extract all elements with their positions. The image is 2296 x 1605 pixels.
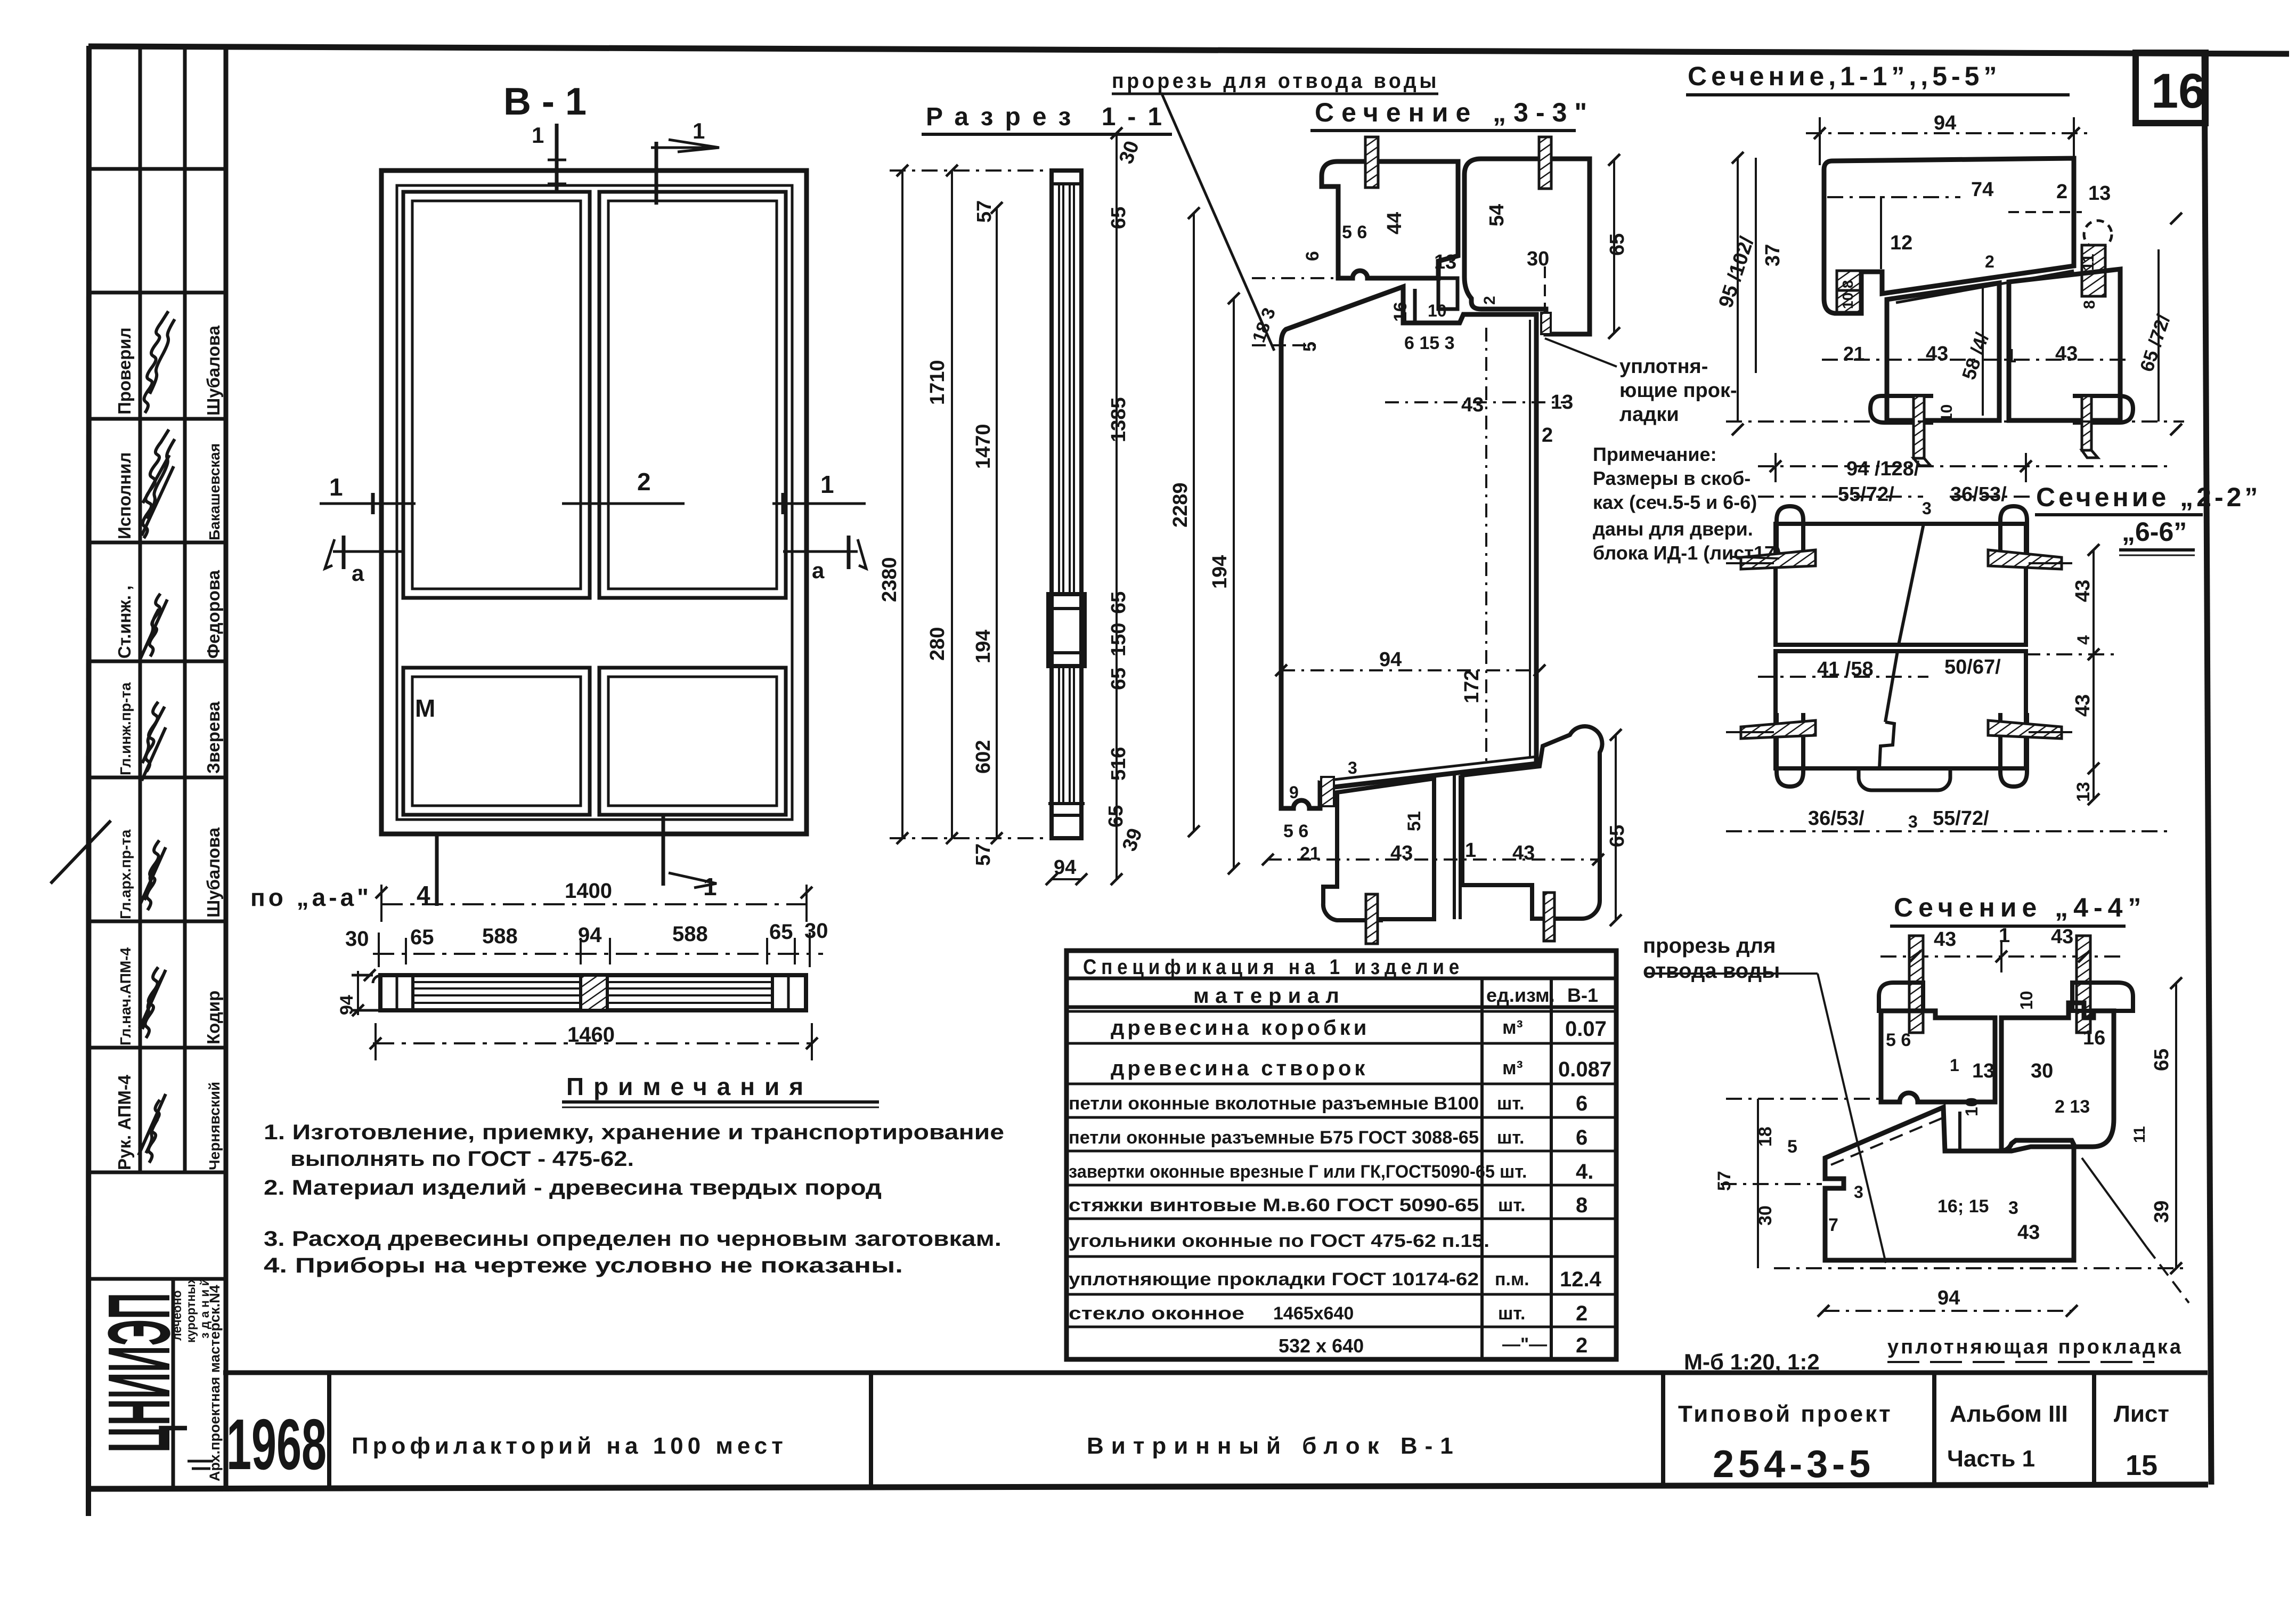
svg-text:65: 65 bbox=[1105, 805, 1127, 828]
svg-text:5: 5 bbox=[1300, 342, 1320, 352]
svg-text:65: 65 bbox=[1108, 207, 1130, 229]
svg-text:Бакашевская: Бакашевская bbox=[206, 443, 223, 540]
svg-text:уплотня-: уплотня- bbox=[1619, 355, 1708, 378]
svg-text:150: 150 bbox=[1108, 623, 1130, 656]
svg-text:Примечание:: Примечание: bbox=[1593, 443, 1717, 465]
svg-text:4: 4 bbox=[2074, 635, 2093, 645]
svg-text:43: 43 bbox=[1512, 842, 1535, 864]
svg-text:1: 1 bbox=[2006, 345, 2016, 367]
svg-text:43: 43 bbox=[2072, 580, 2094, 602]
svg-text:65 /72/: 65 /72/ bbox=[2136, 312, 2175, 374]
svg-text:Гл.нач.АПМ-4: Гл.нач.АПМ-4 bbox=[117, 947, 134, 1045]
svg-text:8: 8 bbox=[1576, 1194, 1587, 1217]
svg-text:петли оконные разъемные Б75 ГО: петли оконные разъемные Б75 ГОСТ 3088-65 bbox=[1069, 1128, 1479, 1148]
svg-text:43: 43 bbox=[1934, 928, 1956, 951]
svg-text:2: 2 bbox=[1985, 252, 1994, 271]
svg-text:2: 2 bbox=[1481, 296, 1499, 305]
svg-text:Шубалова: Шубалова bbox=[203, 827, 223, 918]
svg-text:10: 10 bbox=[2017, 991, 2036, 1010]
svg-text:54: 54 bbox=[1486, 204, 1508, 226]
svg-text:Размеры в скоб-: Размеры в скоб- bbox=[1593, 467, 1751, 489]
svg-text:602: 602 bbox=[972, 740, 995, 774]
svg-text:13: 13 bbox=[2088, 182, 2111, 205]
svg-text:55/72/: 55/72/ bbox=[1838, 483, 1894, 506]
svg-text:18: 18 bbox=[1755, 1126, 1776, 1147]
svg-text:отвода воды: отвода воды bbox=[1643, 959, 1780, 983]
svg-text:петли оконные вколотные разъем: петли оконные вколотные разъемные В100 bbox=[1069, 1093, 1479, 1114]
svg-text:шт.: шт. bbox=[1500, 1162, 1527, 1182]
svg-text:50/67/: 50/67/ bbox=[1944, 656, 2001, 678]
svg-text:Гл.арх.пр-та: Гл.арх.пр-та bbox=[117, 829, 134, 919]
svg-text:30: 30 bbox=[1527, 248, 1549, 270]
svg-text:1968: 1968 bbox=[226, 1404, 327, 1485]
svg-text:завертки оконные врезные Г или: завертки оконные врезные Г или ГК,ГОСТ50… bbox=[1069, 1162, 1495, 1182]
svg-text:1470: 1470 bbox=[972, 424, 995, 469]
svg-text:13: 13 bbox=[2073, 782, 2094, 802]
svg-text:материал: материал bbox=[1193, 984, 1346, 1008]
svg-text:10.8: 10.8 bbox=[1839, 280, 1856, 310]
svg-text:3: 3 bbox=[2008, 1198, 2018, 1218]
svg-text:ед.изм.: ед.изм. bbox=[1486, 984, 1555, 1006]
svg-text:194: 194 bbox=[1209, 555, 1231, 589]
svg-text:В - 1: В - 1 bbox=[503, 80, 587, 123]
svg-text:30: 30 bbox=[1755, 1205, 1776, 1226]
svg-text:43: 43 bbox=[1461, 394, 1484, 416]
svg-text:2: 2 bbox=[637, 468, 651, 496]
svg-text:30: 30 bbox=[2031, 1060, 2053, 1082]
svg-text:280: 280 bbox=[926, 627, 949, 661]
svg-text:Альбом III: Альбом III bbox=[1950, 1401, 2068, 1427]
svg-text:516: 516 bbox=[1108, 747, 1130, 781]
svg-text:ющие прок-: ющие прок- bbox=[1619, 379, 1737, 402]
svg-text:Зверева: Зверева bbox=[203, 701, 223, 774]
svg-text:21: 21 bbox=[1300, 844, 1320, 864]
svg-text:Кодир: Кодир bbox=[203, 991, 223, 1044]
svg-text:65: 65 bbox=[1606, 825, 1629, 847]
svg-text:стяжки винтовые М.в.60 ГОСТ 50: стяжки винтовые М.в.60 ГОСТ 5090-65 bbox=[1069, 1195, 1479, 1215]
svg-text:Профилакторий на 100 мест: Профилакторий на 100 мест bbox=[352, 1433, 787, 1459]
svg-text:Лист: Лист bbox=[2114, 1401, 2169, 1427]
svg-text:Примечания: Примечания bbox=[566, 1073, 813, 1100]
svg-text:36/53/: 36/53/ bbox=[1950, 483, 2007, 506]
svg-text:1: 1 bbox=[693, 118, 705, 143]
svg-text:по „а-а": по „а-а" bbox=[250, 883, 372, 911]
svg-text:9: 9 bbox=[1289, 783, 1299, 802]
svg-text:В-1: В-1 bbox=[1567, 984, 1598, 1006]
svg-text:65: 65 bbox=[410, 926, 434, 949]
svg-text:172: 172 bbox=[1461, 670, 1483, 703]
svg-text:Арх.проектная мастерск.N4: Арх.проектная мастерск.N4 bbox=[207, 1285, 223, 1481]
svg-text:43: 43 bbox=[2055, 343, 2078, 365]
svg-text:3: 3 bbox=[1348, 758, 1357, 777]
svg-text:51: 51 bbox=[1404, 811, 1424, 831]
svg-text:65: 65 bbox=[2151, 1049, 2173, 1071]
svg-text:44: 44 bbox=[1383, 212, 1406, 234]
svg-text:Типовой проект: Типовой проект bbox=[1678, 1401, 1893, 1427]
svg-text:а: а bbox=[352, 561, 364, 586]
svg-text:прорезь для отвода воды: прорезь для отвода воды bbox=[1112, 69, 1439, 93]
svg-text:ладки: ладки bbox=[1619, 403, 1679, 426]
svg-text:М: М bbox=[415, 694, 435, 722]
svg-text:2380: 2380 bbox=[878, 557, 901, 602]
svg-text:57: 57 bbox=[972, 844, 995, 866]
svg-text:6: 6 bbox=[1576, 1126, 1587, 1149]
svg-text:3: 3 bbox=[1854, 1182, 1863, 1202]
svg-text:Гл.инж.пр-та: Гл.инж.пр-та bbox=[117, 682, 134, 775]
svg-text:58 /4/: 58 /4/ bbox=[1958, 330, 1993, 382]
svg-text:уплотняющие прокладки ГОСТ 101: уплотняющие прокладки ГОСТ 10174-62 bbox=[1069, 1269, 1479, 1290]
svg-text:1: 1 bbox=[703, 873, 717, 901]
svg-text:39: 39 bbox=[1118, 825, 1147, 854]
svg-text:1: 1 bbox=[1950, 1056, 1959, 1075]
svg-text:Чернявский: Чернявский bbox=[206, 1082, 223, 1170]
svg-text:1710: 1710 bbox=[926, 360, 949, 405]
svg-text:уплотняющая прокладка: уплотняющая прокладка bbox=[1887, 1336, 2183, 1358]
svg-text:2: 2 bbox=[2056, 181, 2067, 203]
svg-text:шт.: шт. bbox=[1497, 1128, 1524, 1148]
svg-text:12.4: 12.4 bbox=[1560, 1268, 1602, 1291]
svg-text:Исполнил: Исполнил bbox=[115, 452, 134, 540]
svg-text:74: 74 bbox=[1971, 179, 1993, 201]
svg-text:Часть 1: Часть 1 bbox=[1947, 1446, 2035, 1472]
svg-text:37: 37 bbox=[1762, 244, 1784, 266]
svg-text:древесина коробки: древесина коробки bbox=[1111, 1016, 1370, 1040]
svg-text:0.07: 0.07 bbox=[1565, 1017, 1607, 1041]
svg-text:21: 21 bbox=[1843, 343, 1865, 364]
svg-text:15: 15 bbox=[2126, 1449, 2157, 1481]
svg-text:2: 2 bbox=[1542, 424, 1553, 447]
svg-text:10: 10 bbox=[1938, 404, 1956, 422]
svg-text:Спецификация на 1 изделие: Спецификация на 1 изделие bbox=[1083, 955, 1464, 979]
svg-text:0.087: 0.087 bbox=[1558, 1058, 1611, 1081]
svg-text:„6-6”: „6-6” bbox=[2122, 517, 2187, 547]
svg-text:1385: 1385 bbox=[1108, 397, 1130, 442]
svg-text:65: 65 bbox=[769, 920, 793, 944]
svg-text:55/72/: 55/72/ bbox=[1933, 807, 1989, 830]
svg-text:шт.: шт. bbox=[1498, 1303, 1525, 1324]
svg-text:16: 16 bbox=[2151, 64, 2205, 118]
svg-text:ках (сеч.5-5 и 6-6): ках (сеч.5-5 и 6-6) bbox=[1593, 491, 1757, 513]
svg-text:п.м.: п.м. bbox=[1495, 1269, 1529, 1290]
svg-text:36/53/: 36/53/ bbox=[1808, 807, 1865, 830]
svg-text:10: 10 bbox=[1428, 301, 1447, 320]
svg-text:2: 2 bbox=[1576, 1302, 1587, 1325]
svg-text:м³: м³ bbox=[1502, 1057, 1523, 1079]
svg-text:курортных: курортных bbox=[184, 1277, 198, 1343]
svg-text:1: 1 bbox=[1465, 839, 1476, 862]
svg-text:3: 3 bbox=[1922, 499, 1932, 518]
svg-text:65: 65 bbox=[1606, 233, 1629, 256]
svg-text:Сечение „3-3": Сечение „3-3" bbox=[1315, 98, 1594, 127]
svg-text:Сечение „2-2”: Сечение „2-2” bbox=[2036, 482, 2261, 512]
svg-text:2289: 2289 bbox=[1169, 482, 1192, 528]
svg-text:лечебно: лечебно bbox=[170, 1290, 184, 1341]
svg-text:30: 30 bbox=[1115, 138, 1144, 167]
svg-text:94: 94 bbox=[1379, 649, 1402, 671]
svg-text:30: 30 bbox=[345, 927, 369, 951]
svg-text:1465x640: 1465x640 bbox=[1273, 1303, 1354, 1324]
svg-text:1: 1 bbox=[820, 471, 834, 498]
svg-text:254-3-5: 254-3-5 bbox=[1713, 1443, 1875, 1486]
svg-text:1: 1 bbox=[532, 123, 544, 148]
svg-text:угольники оконные по ГОСТ 475-: угольники оконные по ГОСТ 475-62 п.15. bbox=[1069, 1231, 1489, 1251]
svg-text:2: 2 bbox=[1576, 1334, 1587, 1357]
svg-text:95 /102/: 95 /102/ bbox=[1715, 234, 1759, 311]
svg-text:7: 7 bbox=[1828, 1215, 1838, 1235]
svg-text:18 3: 18 3 bbox=[1249, 305, 1280, 345]
svg-text:1. Изготовление, приемку, хр: 1. Изготовление, приемку, хранение и тра… bbox=[264, 1121, 1004, 1144]
svg-text:57: 57 bbox=[1714, 1171, 1735, 1191]
svg-text:94 /128/: 94 /128/ bbox=[1846, 458, 1920, 480]
svg-text:шт.: шт. bbox=[1497, 1093, 1524, 1114]
svg-text:Сечение,1-1”,,5-5”: Сечение,1-1”,,5-5” bbox=[1688, 61, 2001, 91]
svg-text:Шубалова: Шубалова bbox=[203, 325, 223, 416]
svg-text:94: 94 bbox=[578, 923, 602, 947]
svg-text:65: 65 bbox=[1108, 591, 1130, 614]
svg-text:Рук. АПМ-4: Рук. АПМ-4 bbox=[115, 1074, 134, 1170]
svg-text:шт.: шт. bbox=[1498, 1195, 1525, 1215]
svg-text:16; 15: 16; 15 bbox=[1937, 1196, 1989, 1217]
svg-text:65: 65 bbox=[1108, 668, 1130, 690]
svg-text:43: 43 bbox=[1926, 343, 1948, 365]
svg-text:Ст.инж. ,: Ст.инж. , bbox=[115, 586, 134, 659]
svg-text:2. Материал изделий - древе: 2. Материал изделий - древесина твердых … bbox=[264, 1176, 882, 1199]
svg-text:11: 11 bbox=[2131, 1126, 2148, 1143]
svg-text:532 x 640: 532 x 640 bbox=[1279, 1335, 1364, 1357]
svg-text:30: 30 bbox=[804, 919, 828, 943]
svg-text:5 6: 5 6 bbox=[1342, 222, 1367, 242]
svg-text:5: 5 bbox=[1787, 1137, 1797, 1157]
svg-text:588: 588 bbox=[482, 925, 518, 948]
svg-text:Проверил: Проверил bbox=[115, 327, 134, 415]
svg-text:94: 94 bbox=[1934, 112, 1956, 134]
svg-text:м³: м³ bbox=[1502, 1016, 1523, 1038]
svg-text:94: 94 bbox=[337, 995, 357, 1015]
svg-text:11: 11 bbox=[2080, 254, 2097, 271]
svg-text:стекло оконное: стекло оконное bbox=[1069, 1303, 1244, 1324]
svg-text:12: 12 bbox=[1890, 232, 1912, 254]
svg-text:10: 10 bbox=[1962, 1097, 1981, 1116]
svg-text:39: 39 bbox=[2151, 1201, 2173, 1223]
svg-text:6: 6 bbox=[1302, 251, 1323, 261]
svg-text:3. Расход древесины определе: 3. Расход древесины определен по черновы… bbox=[264, 1227, 1002, 1251]
svg-text:5 6: 5 6 bbox=[1886, 1030, 1911, 1050]
svg-text:3: 3 bbox=[1908, 812, 1918, 831]
svg-text:Сечение „4-4”: Сечение „4-4” bbox=[1894, 893, 2146, 922]
svg-text:94: 94 bbox=[1937, 1287, 1960, 1309]
svg-text:16: 16 bbox=[1390, 302, 1411, 322]
svg-text:1: 1 bbox=[329, 473, 343, 501]
svg-text:588: 588 bbox=[672, 922, 708, 946]
svg-text:прорезь для: прорезь для bbox=[1643, 934, 1776, 958]
svg-text:13: 13 bbox=[1972, 1060, 1994, 1082]
svg-text:6 15 3: 6 15 3 bbox=[1404, 333, 1455, 353]
svg-text:а: а bbox=[812, 558, 825, 583]
svg-text:13: 13 bbox=[1551, 391, 1573, 414]
svg-text:4. Приборы на чертеже усло: 4. Приборы на чертеже условно не показан… bbox=[264, 1254, 903, 1277]
svg-text:8: 8 bbox=[2081, 300, 2098, 309]
svg-text:древесина створок: древесина створок bbox=[1111, 1057, 1368, 1080]
svg-text:41 /58: 41 /58 bbox=[1817, 658, 1874, 680]
svg-text:43: 43 bbox=[2072, 694, 2094, 717]
svg-text:Разрез 1-1: Разрез 1-1 bbox=[926, 103, 1174, 131]
svg-text:Витринный блок В-1: Витринный блок В-1 bbox=[1087, 1433, 1461, 1459]
svg-text:43: 43 bbox=[1390, 842, 1413, 864]
svg-text:13: 13 bbox=[1434, 251, 1456, 273]
svg-text:16: 16 bbox=[2083, 1027, 2105, 1049]
svg-text:6: 6 bbox=[1576, 1092, 1587, 1115]
svg-text:1400: 1400 bbox=[565, 879, 612, 903]
svg-text:—"—: —"— bbox=[1502, 1334, 1547, 1355]
svg-text:43: 43 bbox=[2017, 1221, 2040, 1244]
svg-text:выполнять по ГОСТ - 475-62.: выполнять по ГОСТ - 475-62. bbox=[290, 1147, 634, 1171]
svg-text:Федорова: Федорова bbox=[203, 570, 223, 659]
svg-text:2 13: 2 13 bbox=[2055, 1097, 2090, 1117]
svg-text:5 6: 5 6 bbox=[1283, 821, 1308, 841]
svg-text:4.: 4. bbox=[1576, 1160, 1593, 1184]
svg-text:даны для двери.: даны для двери. bbox=[1593, 518, 1753, 540]
svg-text:М-б 1:20, 1:2: М-б 1:20, 1:2 bbox=[1684, 1349, 1820, 1374]
svg-text:43: 43 bbox=[2051, 926, 2073, 948]
svg-text:194: 194 bbox=[972, 630, 995, 663]
